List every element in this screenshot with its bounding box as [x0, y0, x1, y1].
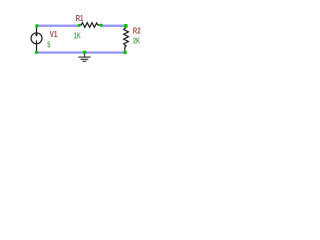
resistor R1 — [80, 23, 101, 28]
node R1 left pin — [78, 24, 81, 27]
wire bottom net — [36, 51, 126, 54]
node V1 bottom pin — [35, 51, 38, 54]
svg-text:V1: V1 — [50, 30, 58, 39]
svg-text:2K: 2K — [133, 36, 140, 45]
ground — [78, 53, 90, 61]
svg-text:1K: 1K — [74, 32, 81, 41]
svg-text:R1: R1 — [76, 14, 84, 23]
node V1 top pin — [35, 24, 38, 27]
wire top right segment — [101, 24, 126, 27]
node ground junction — [83, 51, 86, 54]
voltage source V1 — [31, 27, 42, 51]
svg-text:5: 5 — [47, 40, 51, 49]
wire top net (V1+ to R1 to R2 top) — [37, 24, 80, 27]
background — [0, 0, 180, 77]
node R1 right pin — [100, 24, 103, 27]
svg-text:R2: R2 — [133, 26, 141, 35]
node R2 bottom pin — [123, 51, 126, 54]
node R2 top pin — [124, 24, 128, 28]
resistor R2 — [124, 26, 129, 52]
